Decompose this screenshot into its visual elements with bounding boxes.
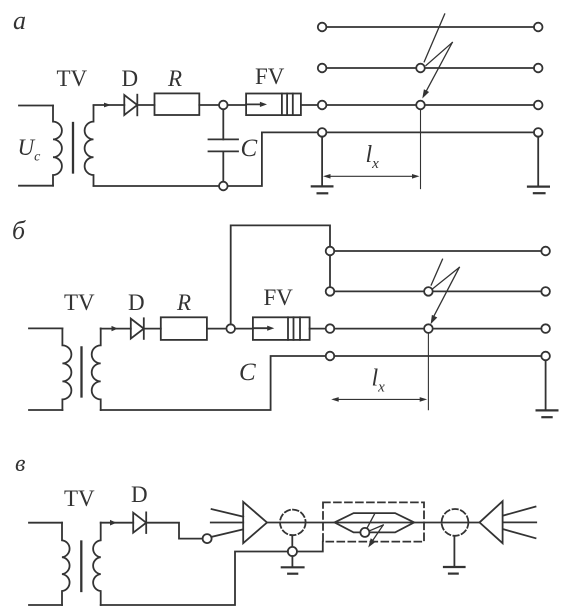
current direction arrow fig b (112, 326, 119, 331)
fault distance extension line (420, 109, 422, 188)
diode D3 (133, 512, 146, 533)
wire sheath node to muff box (297, 542, 323, 552)
wire secondary bottom fig b (101, 356, 326, 410)
node after R fig b (226, 324, 235, 333)
wire FV to line3 fig b (310, 328, 326, 330)
wire node to FV (228, 104, 247, 106)
cable funnel right (480, 501, 503, 543)
line L1 terminals (318, 23, 327, 32)
arrester FV2 (253, 317, 310, 340)
svg-text:TV: TV (64, 290, 95, 315)
cable muff hexagon (335, 513, 415, 532)
wire diode to resistor (137, 104, 154, 106)
wire riser node to lines 1-2 (231, 225, 330, 324)
transformer TV3 primary winding (62, 523, 70, 605)
ground sheath right (444, 536, 465, 574)
wire line L3b (334, 328, 541, 330)
svg-text:lx: lx (372, 366, 386, 396)
line L2 terminals (318, 64, 327, 73)
resistor R1 (155, 93, 200, 115)
funnel left top lead (212, 509, 244, 517)
svg-text:lx: lx (366, 142, 380, 172)
svg-text:FV: FV (264, 285, 294, 310)
funnel right bottom lead (504, 529, 536, 538)
cable funnel left (243, 502, 267, 543)
funnel right middle lead (504, 521, 537, 523)
wire line L2 (326, 67, 534, 69)
svg-text:Uc: Uc (18, 135, 42, 165)
wire jumper L1b-L2b (329, 255, 331, 287)
line L3 terminals (318, 101, 327, 110)
svg-text:FV: FV (255, 64, 285, 89)
main cable line fig c (267, 522, 480, 524)
svg-text:TV: TV (57, 66, 88, 91)
current direction arrow fig c (110, 520, 117, 526)
fault node line L3b (424, 324, 433, 333)
line L2b terminals (326, 287, 335, 296)
svg-text:C: C (239, 359, 256, 386)
wire secondary top to diode (94, 104, 125, 106)
wire sheath to node (291, 536, 293, 547)
sheath node circle (288, 547, 297, 556)
ground sheath left (282, 556, 304, 574)
capacitor C1 (209, 109, 239, 186)
transformer TV2 primary winding (62, 328, 71, 410)
wire line L2b (334, 290, 541, 292)
line L3b terminals (326, 324, 335, 333)
wire primary bottom terminal fig c (29, 604, 62, 606)
coupling dashed circle left (280, 510, 306, 536)
wire FV to line3 (301, 104, 318, 106)
input node circle fig c (203, 534, 212, 543)
wire line L1b (334, 250, 541, 252)
node bottom (219, 182, 228, 191)
transformer TV3 secondary winding (93, 523, 101, 605)
wire line L1 (326, 26, 534, 28)
svg-text:D: D (131, 482, 148, 507)
wire primary top terminal fig b (29, 327, 62, 329)
svg-text:R: R (167, 66, 182, 91)
fault node line L2b (424, 287, 433, 296)
wire line L3 (326, 104, 534, 106)
svg-text:D: D (122, 66, 139, 91)
wire node to funnel base (211, 529, 243, 537)
wire primary top terminal (19, 105, 53, 107)
resistor R2 (161, 317, 207, 340)
transformer TV1 primary winding (53, 106, 62, 186)
svg-text:a: a (13, 6, 26, 35)
wire primary bottom terminal (19, 185, 53, 187)
fault distance extension line fig b (427, 333, 429, 410)
wire secondary top to diode fig c (101, 522, 134, 524)
wire secondary top to diode fig b (101, 328, 131, 330)
ground right fig b (537, 360, 558, 417)
wire secondary bottom (94, 132, 318, 186)
wire line L4b (334, 355, 541, 357)
dimension arrow lx (323, 174, 420, 179)
line L4 terminals (318, 128, 327, 137)
funnel right top lead (504, 507, 536, 516)
line L1b terminals (326, 247, 335, 256)
fault node line L3 (416, 101, 425, 110)
wire sheath node to transformer bottom (101, 552, 288, 606)
fault node line L2 (416, 64, 425, 73)
diode D1 (124, 95, 137, 116)
wire resistor to node fig b (207, 328, 227, 330)
transformer TV1 secondary winding (85, 106, 94, 186)
dimension arrow lx fig b (331, 397, 427, 402)
transformer TV3 core (80, 542, 82, 592)
wire resistor to node (199, 104, 219, 106)
ground left (312, 137, 333, 194)
svg-text:в: в (15, 451, 25, 477)
ground right (528, 137, 549, 194)
transformer TV2 secondary winding (92, 328, 101, 410)
wire node to FV fig b (235, 328, 253, 330)
lightning fault arrow fig c (368, 514, 384, 548)
svg-text:б: б (12, 216, 26, 245)
lightning fault arrow fig b (431, 259, 460, 324)
coupling dashed circle right (442, 509, 469, 536)
svg-text:D: D (128, 290, 145, 315)
arrester FV1 (246, 94, 301, 116)
muff fault circle (360, 528, 369, 537)
current direction arrow (104, 103, 111, 108)
svg-text:R: R (176, 290, 191, 315)
wire diode to input node fig c (146, 523, 202, 539)
diode D2 (131, 318, 144, 339)
wire primary bottom terminal fig b (29, 409, 62, 411)
node after R (219, 101, 228, 110)
funnel left middle lead (211, 522, 243, 524)
line L4b terminals (326, 352, 335, 361)
svg-text:TV: TV (64, 486, 95, 511)
transformer TV2 core (80, 347, 82, 396)
wire primary top terminal fig c (29, 522, 62, 524)
wire line L4 (326, 131, 534, 133)
fault section dashed box (323, 502, 424, 541)
lightning fault arrow (422, 14, 452, 99)
wire diode to resistor fig b (144, 328, 161, 330)
svg-text:C: C (241, 135, 258, 162)
transformer TV1 core (72, 123, 74, 173)
